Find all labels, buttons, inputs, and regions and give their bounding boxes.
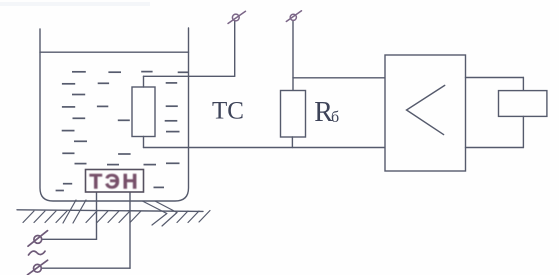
svg-text:Rб: Rб [314,97,339,128]
svg-text:ТС: ТС [212,98,244,125]
svg-text:ТЭН: ТЭН [89,170,140,193]
